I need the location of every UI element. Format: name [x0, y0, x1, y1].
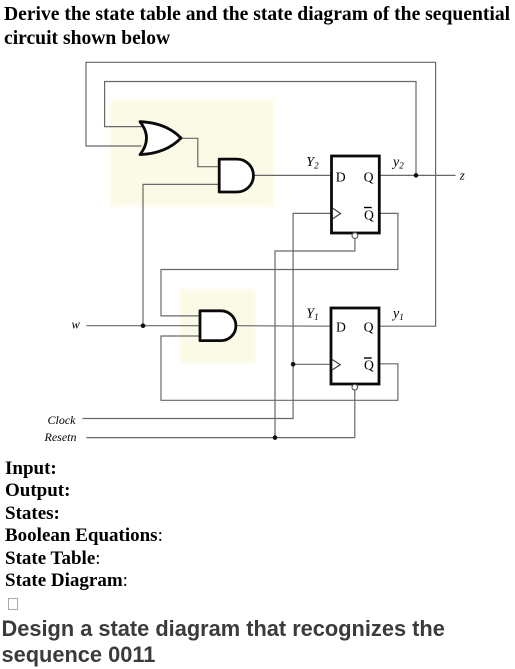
junction node on resetn line — [273, 435, 278, 440]
design prompt text — [2, 616, 445, 669]
svg-text:z: z — [459, 168, 465, 183]
highlight region 1 (OR/AND area) — [110, 99, 274, 206]
question list — [5, 458, 163, 592]
svg-text:Clock: Clock — [48, 413, 77, 427]
svg-text:D: D — [336, 169, 346, 184]
wire OR output to AND1 upper input — [181, 138, 220, 166]
svg-text:Q: Q — [364, 208, 374, 223]
svg-text:Y1: Y1 — [306, 307, 318, 323]
wire Q-bar1 feedback to AND2 lower input — [161, 336, 398, 400]
svg-text:Y2: Y2 — [306, 155, 319, 171]
wire Resetn — [87, 390, 355, 437]
clock triangle (FF1) — [333, 208, 341, 218]
reset bubble (FF2) — [352, 384, 358, 390]
reset bubble (FF1) — [352, 233, 358, 239]
and-gate G2 (upper) — [219, 159, 253, 192]
wire clock branch to FF2 — [293, 363, 331, 365]
svg-text:y1: y1 — [391, 307, 404, 323]
and-gate G3 (lower) — [200, 311, 236, 341]
wire AND2 output to FF2 D — [236, 325, 331, 328]
wire FF1 Q output to z — [379, 174, 455, 176]
wire w input — [87, 325, 200, 327]
highlight region 2 (lower AND area) — [180, 289, 256, 363]
wire w branch to AND1 lower input — [143, 184, 219, 325]
title text — [4, 3, 510, 50]
d-flip-flop FF2 (bottom) — [331, 308, 379, 390]
svg-text:Q: Q — [364, 169, 374, 184]
svg-text:Q: Q — [364, 320, 374, 335]
svg-text:Resetn: Resetn — [44, 430, 77, 444]
junction node on clock branch — [291, 362, 296, 367]
wire y2 feedback (z node to OR upper input) — [105, 82, 416, 176]
svg-text:w: w — [72, 318, 81, 332]
wire Q-bar2 feedback to AND2 upper input — [161, 213, 398, 316]
svg-text:D: D — [336, 320, 346, 335]
junction node on w line — [141, 323, 146, 328]
wire resetn branch to FF1 — [275, 239, 355, 438]
svg-text:Q: Q — [364, 357, 374, 372]
clock triangle (FF2) — [332, 360, 340, 370]
checkbox — [8, 598, 19, 610]
junction node at z — [414, 173, 419, 178]
wire Clock — [83, 213, 332, 418]
or-gate G1 — [140, 122, 181, 155]
wire AND1 output to FF1 D — [253, 174, 331, 176]
d-flip-flop FF1 (top) — [332, 156, 380, 239]
wire y1 feedback (FF2 Q to OR lower input) — [86, 62, 436, 326]
svg-text:y2: y2 — [391, 155, 404, 171]
